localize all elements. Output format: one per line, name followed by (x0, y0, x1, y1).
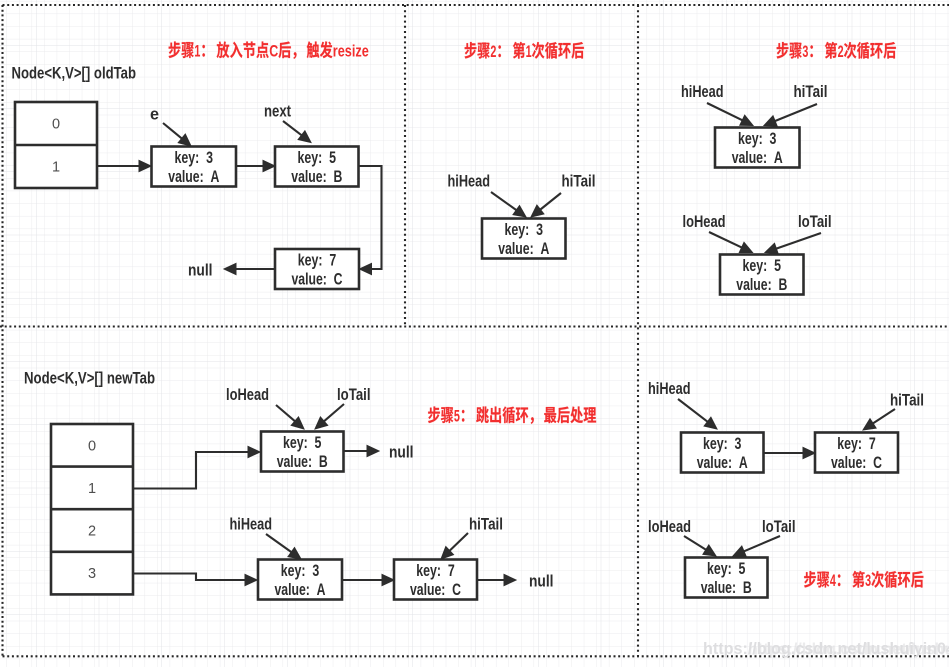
svg-text:hiHead: hiHead (448, 172, 491, 191)
step5 red title (428, 406, 596, 425)
watermark (703, 640, 949, 659)
node key:5 value:B (step3) (720, 255, 804, 295)
node C key:7 value:C (step5) (394, 560, 477, 600)
arrow oldTab[1] to node A (98, 160, 152, 171)
node A key:3 value:A (step4) (681, 433, 764, 473)
svg-text:next: next (264, 102, 291, 121)
svg-text:value: A: value: A (697, 453, 748, 472)
svg-text:Node<K,V>[] oldTab: Node<K,V>[] oldTab (12, 64, 137, 83)
svg-text:value: C: value: C (410, 580, 461, 599)
svg-text:key: 7: key: 7 (298, 250, 337, 269)
step1 red title (169, 41, 369, 60)
arrow next to node B (283, 121, 311, 143)
svg-text:null: null (529, 572, 554, 591)
svg-text:key: 3: key: 3 (281, 561, 320, 580)
arrow node A to node C (step5) (343, 574, 395, 585)
svg-text:Node<K,V>[] newTab: Node<K,V>[] newTab (24, 369, 155, 388)
svg-text:value: B: value: B (277, 452, 328, 471)
elbow arrow newTab[3] to node A (133, 574, 257, 586)
svg-text:hiHead: hiHead (230, 515, 273, 534)
node A key:3 value:A (152, 147, 237, 187)
svg-text:hiHead: hiHead (648, 379, 691, 398)
svg-text:1: 1 (88, 481, 96, 497)
arrow hiHead to node A (step3) (707, 103, 753, 126)
svg-text:null: null (389, 443, 414, 462)
step4 red title (804, 571, 923, 590)
svg-text:3: 3 (88, 566, 96, 582)
node key:3 value:A (step2) (482, 219, 566, 259)
node key:3 value:A (step3) (715, 128, 800, 168)
svg-text:loTail: loTail (762, 517, 796, 536)
svg-text:value: C: value: C (831, 453, 882, 472)
arrow loHead to node B (step5) (276, 405, 304, 429)
node A key:3 value:A (step5) (258, 560, 342, 600)
svg-text:hiTail: hiTail (794, 82, 828, 101)
horizontal dashed divider (0, 325, 949, 327)
svg-text:loTail: loTail (798, 212, 832, 231)
svg-text:loTail: loTail (337, 385, 371, 404)
node C key:7 value:C (step4) (815, 433, 898, 473)
node C key:7 value:C (275, 249, 359, 289)
svg-text:value: A: value: A (732, 148, 783, 167)
svg-text:2: 2 (838, 43, 844, 61)
svg-text:loHead: loHead (226, 385, 269, 404)
vertical dashed divider between mid and right columns (637, 5, 639, 656)
arrow node A to node C (step4) (764, 447, 816, 458)
svg-text:e: e (150, 105, 159, 124)
svg-text:key: 5: key: 5 (707, 559, 746, 578)
svg-text:key: 7: key: 7 (416, 561, 455, 580)
elbow arrow node B to node C (359, 166, 382, 275)
svg-text:value: C: value: C (292, 270, 343, 289)
arrow hiTail to node C (step4) (863, 409, 895, 430)
svg-text:key: 5: key: 5 (743, 256, 782, 275)
svg-text:5: 5 (454, 408, 460, 426)
arrow loTail to node B (step3) (765, 233, 821, 254)
arrow loHead to node B (step3) (709, 232, 753, 253)
svg-text:2: 2 (490, 43, 496, 61)
node B key:5 value:B (step5) (261, 432, 344, 472)
svg-text:key: 3: key: 3 (175, 148, 214, 167)
step2 red title (465, 42, 584, 61)
svg-text:hiHead: hiHead (681, 82, 724, 101)
step3 red title (777, 42, 896, 61)
arrow hiHead to node (step2) (491, 192, 526, 217)
arrow hiHead to node A (step5) (266, 534, 301, 559)
svg-text:null: null (188, 261, 213, 280)
vertical dashed divider between step1 and step2 (404, 5, 406, 327)
arrow node B to null (step5) (344, 445, 380, 456)
svg-text:value: A: value: A (498, 239, 549, 258)
node B key:5 value:B (step4) (685, 558, 768, 598)
newTab table (51, 424, 133, 594)
arrow hiHead to node A (step4) (678, 399, 717, 429)
svg-text:0: 0 (52, 117, 60, 133)
arrow hiTail to node A (step3) (764, 104, 817, 126)
arrow hiTail to node C (step5) (441, 533, 468, 559)
svg-text:key: 3: key: 3 (505, 220, 544, 239)
arrow node C to null (step5) (478, 574, 517, 585)
svg-text:3: 3 (865, 572, 871, 590)
svg-text:loHead: loHead (683, 212, 726, 231)
svg-text:1: 1 (194, 43, 200, 61)
svg-text:1: 1 (52, 160, 60, 176)
arrow node C to null (224, 263, 275, 274)
arrow loTail to node B (step5) (315, 404, 344, 429)
svg-text:C: C (269, 43, 278, 61)
svg-text:1: 1 (526, 43, 532, 61)
svg-text:value: A: value: A (275, 580, 326, 599)
svg-text:hiTail: hiTail (890, 391, 924, 410)
arrow e to node A (163, 123, 191, 146)
svg-text:value: B: value: B (701, 578, 752, 597)
svg-text:key: 3: key: 3 (738, 129, 777, 148)
svg-text:3: 3 (802, 43, 808, 61)
svg-text:key: 5: key: 5 (283, 433, 322, 452)
svg-text:loHead: loHead (648, 517, 691, 536)
oldTab table (15, 102, 97, 188)
svg-text:value: B: value: B (291, 167, 342, 186)
svg-text:key: 3: key: 3 (703, 434, 742, 453)
svg-text:resize: resize (333, 43, 369, 61)
svg-text:value: A: value: A (168, 167, 219, 186)
elbow arrow newTab[1] to node B (133, 446, 260, 488)
svg-text:hiTail: hiTail (469, 515, 503, 534)
svg-text:2: 2 (88, 524, 96, 540)
svg-text:4: 4 (830, 572, 837, 590)
svg-text:https://blog.csdn.net/lushuiyi: https://blog.csdn.net/lushuiyin04 (748, 641, 949, 659)
svg-text:key: 7: key: 7 (837, 434, 876, 453)
arrow loHead to node B (step4) (684, 536, 716, 556)
svg-text:0: 0 (88, 438, 96, 454)
arrow hiTail to node (step2) (531, 193, 561, 217)
arrow loTail to node B (step4) (733, 536, 780, 557)
node B key:5 value:B (275, 147, 359, 187)
svg-text:hiTail: hiTail (562, 172, 596, 191)
svg-text:value: B: value: B (736, 275, 787, 294)
arrow node A to node B (237, 160, 276, 171)
svg-text:key: 5: key: 5 (298, 148, 337, 167)
